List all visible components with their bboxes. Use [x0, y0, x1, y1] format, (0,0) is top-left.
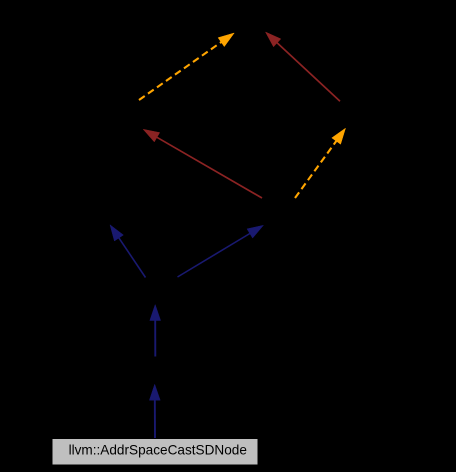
orange dashed template-instance arrow: llvm::ilist_half_node<SDNode> -> llvm::ilist_half_node<NodeTy> — [139, 33, 234, 100]
blue public-inheritance arrow: llvm::AddrSpaceCastSDNode -> llvm::UnarySDNode — [149, 384, 160, 438]
node box: llvm::AddrSpaceCastSDNode (current class, grey fill) — [52, 439, 258, 466]
dark red private-inheritance arrow: llvm::ilist_node<NodeTy> -> llvm::ilist_half_node<NodeTy> — [266, 32, 341, 101]
blue public-inheritance arrow: llvm::SDNode -> llvm::ilist_node<SDNode> — [178, 225, 264, 277]
orange dashed template-instance arrow: llvm::ilist_node<SDNode> -> llvm::ilist_node<NodeTy> — [295, 128, 346, 198]
blue public-inheritance arrow: llvm::SDNode -> llvm::FoldingSetNode — [110, 225, 146, 278]
dark red private-inheritance arrow: llvm::ilist_node<SDNode> -> llvm::ilist_half_node<SDNode> — [143, 129, 262, 198]
blue public-inheritance arrow: llvm::UnarySDNode -> llvm::SDNode — [150, 305, 161, 357]
svg-text:llvm::AddrSpaceCastSDNode: llvm::AddrSpaceCastSDNode — [69, 443, 247, 458]
